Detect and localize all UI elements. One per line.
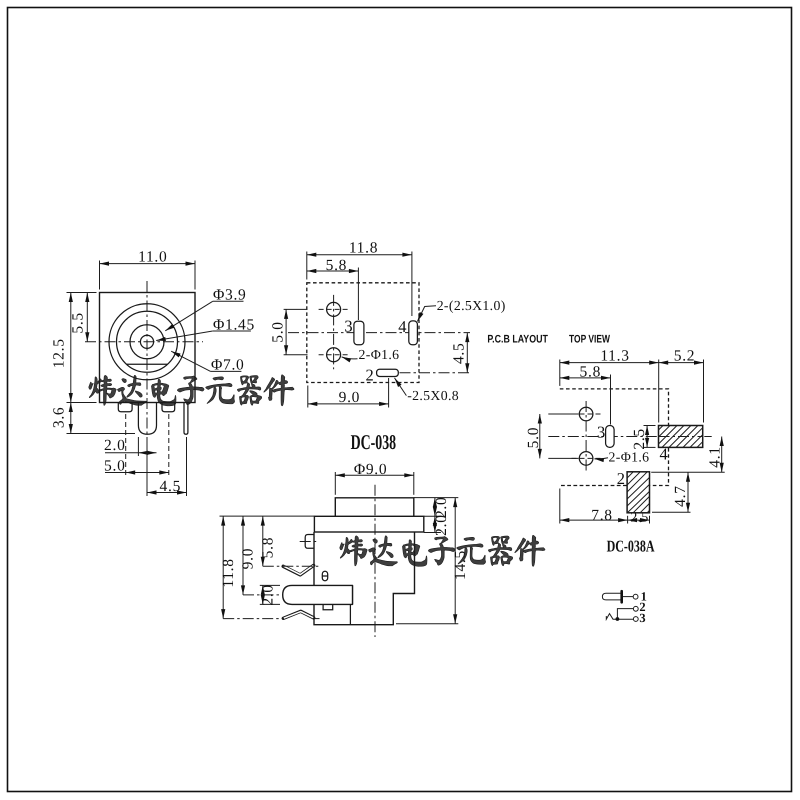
slot 2 xyxy=(377,369,399,376)
dim 5.0 left xyxy=(284,308,308,310)
hole 2 bottom xyxy=(579,452,593,466)
label dia 1.45 leader xyxy=(156,331,213,341)
dim 3.6 left xyxy=(67,433,136,435)
svg-text:Φ1.45: Φ1.45 xyxy=(213,316,255,333)
circle dia 7.0 xyxy=(117,311,178,372)
circle dia 3.9 xyxy=(130,325,164,359)
dim 9.0 left xyxy=(242,516,244,595)
dim 5.8 xyxy=(357,268,359,321)
label 2-dia1.6 leader xyxy=(594,458,608,459)
slot 4 xyxy=(409,321,418,345)
svg-text:11.8: 11.8 xyxy=(349,240,378,257)
svg-text:2.0: 2.0 xyxy=(104,437,125,454)
dim phi 9.0 top xyxy=(334,472,336,495)
svg-text:5.8: 5.8 xyxy=(580,363,601,380)
svg-text:4.1: 4.1 xyxy=(707,446,724,467)
svg-text:4: 4 xyxy=(659,445,667,464)
svg-text:Φ9.0: Φ9.0 xyxy=(354,461,388,478)
vertical centerline through holes xyxy=(333,295,335,369)
pad 2 hatched xyxy=(627,472,649,513)
hole 1 top xyxy=(579,407,593,421)
slot 3 xyxy=(354,321,364,345)
spring contact zigzag pin 3 xyxy=(606,614,633,620)
wire pin 1 xyxy=(623,596,633,598)
hole 2 crosshair xyxy=(572,457,602,459)
svg-text:11.0: 11.0 xyxy=(138,248,167,265)
dim 4.5 bottom xyxy=(146,437,148,496)
dim 4.7 right xyxy=(652,511,691,513)
slot 3 xyxy=(606,426,615,448)
top extension line left xyxy=(220,515,315,517)
flange rect xyxy=(314,516,423,532)
pcb outline dashed rect xyxy=(307,283,419,383)
chord line xyxy=(127,363,168,365)
dim 5.5 left xyxy=(84,292,97,294)
terminal circle 1 xyxy=(633,594,638,599)
dim 2.5 pad4 xyxy=(644,425,656,427)
svg-text:3: 3 xyxy=(344,316,352,335)
svg-text:2.5: 2.5 xyxy=(630,509,648,524)
dim 2.0 bottom xyxy=(137,437,139,456)
watermark text weida dianzi yuanqijian lower xyxy=(340,535,545,566)
horizontal centerline xyxy=(548,436,711,438)
dim 11.0 top xyxy=(99,261,101,290)
center pin side (rounded cap) xyxy=(283,585,353,604)
svg-text:4.5: 4.5 xyxy=(450,343,467,364)
lower spring contact pin xyxy=(283,611,313,618)
svg-text:P.C.B LAYOUT: P.C.B LAYOUT xyxy=(487,334,548,346)
svg-text:5.0: 5.0 xyxy=(104,457,125,474)
svg-text:11.8: 11.8 xyxy=(220,558,237,587)
vertical centerline xyxy=(146,281,148,468)
vertical centerline xyxy=(374,485,376,637)
svg-text:Φ3.9: Φ3.9 xyxy=(213,287,247,304)
dim 11.3 xyxy=(559,360,561,386)
svg-text:-2.5X0.8: -2.5X0.8 xyxy=(407,388,459,403)
hole 1 crosshair xyxy=(319,308,349,310)
svg-text:2: 2 xyxy=(617,469,625,488)
label dia 3.9 leader xyxy=(165,301,212,331)
svg-text:4.7: 4.7 xyxy=(672,485,689,506)
right extension from flange bottom xyxy=(424,532,441,534)
svg-text:5.0: 5.0 xyxy=(270,321,287,342)
dim 12.5 left xyxy=(67,292,97,294)
horizontal centerline xyxy=(85,341,203,343)
main body outline xyxy=(314,532,415,625)
svg-text:12.5: 12.5 xyxy=(50,338,67,368)
svg-text:DC-038A: DC-038A xyxy=(607,537,655,556)
right mount tab pin xyxy=(162,403,175,412)
dim 4.5 right xyxy=(466,333,468,373)
left protrusion lug xyxy=(305,535,314,549)
svg-text:2-(2.5X1.0): 2-(2.5X1.0) xyxy=(437,298,506,313)
barrel top rect xyxy=(335,498,414,517)
label 2-(2.5X1.0) leader xyxy=(417,306,436,322)
svg-text:DC-038: DC-038 xyxy=(351,430,397,454)
svg-text:11.3: 11.3 xyxy=(600,348,629,365)
dim 5.0 bottom xyxy=(125,414,127,476)
svg-text:7.8: 7.8 xyxy=(591,507,612,524)
inner vertical line below pin xyxy=(349,605,351,625)
svg-text:2-Φ1.6: 2-Φ1.6 xyxy=(359,347,400,362)
dim 5.8 left xyxy=(262,516,264,566)
svg-text:5.2: 5.2 xyxy=(674,348,695,365)
label 2.5X0.8 leader xyxy=(395,378,407,396)
svg-text:5.8: 5.8 xyxy=(260,537,277,558)
small slot inside body xyxy=(322,571,327,580)
center pin centerline xyxy=(243,594,281,596)
lower pin centerline xyxy=(223,618,283,620)
dim 2.5 pad2 bottom xyxy=(627,516,629,524)
outer barrel circle xyxy=(109,304,185,380)
wire pin 2 (L-shape) xyxy=(617,609,633,619)
pad 4 hatched xyxy=(659,426,703,448)
svg-text:Φ7.0: Φ7.0 xyxy=(211,357,245,374)
dim 2.0 barrel height xyxy=(434,498,436,517)
horizontal centerline through slots 3 and 4 xyxy=(288,332,470,334)
body inner line at pin end xyxy=(352,585,354,604)
centerline over pad 4 xyxy=(659,436,703,438)
dim 11.8 left xyxy=(222,516,224,619)
dim 7.8 bottom xyxy=(559,489,561,524)
dim 2.0 left pin xyxy=(260,584,280,586)
upper spring contact pin xyxy=(283,565,313,575)
left mount tab pin xyxy=(118,403,132,412)
terminal circle 2 xyxy=(633,606,638,611)
center pin barrel symbol xyxy=(602,593,622,600)
svg-text:2.5: 2.5 xyxy=(631,428,648,449)
label dia 7.0 leader xyxy=(171,351,210,371)
dim 5.2 xyxy=(703,360,705,423)
dim 11.8 xyxy=(306,252,308,280)
svg-text:2.0: 2.0 xyxy=(433,514,450,535)
hole 2 bottom xyxy=(327,348,341,362)
dim 14.5 right xyxy=(396,623,458,625)
svg-text:4.5: 4.5 xyxy=(160,478,181,495)
center pin circle dia 1.45 xyxy=(140,335,153,348)
svg-text:9.0: 9.0 xyxy=(339,389,360,406)
right thin pin xyxy=(184,403,188,435)
contact bar pin 1 xyxy=(620,591,623,602)
hole 2 crosshair xyxy=(319,354,349,356)
svg-text:5.8: 5.8 xyxy=(326,257,347,274)
svg-text:2: 2 xyxy=(365,365,373,384)
svg-text:3: 3 xyxy=(597,423,605,442)
watermark text weida dianzi yuanqijian upper xyxy=(89,375,294,406)
center pin (U-shape) xyxy=(138,403,156,435)
svg-text:9.0: 9.0 xyxy=(239,548,256,569)
svg-text:2-Φ1.6: 2-Φ1.6 xyxy=(609,450,650,465)
dim 4.1 right xyxy=(651,471,725,473)
junction dot xyxy=(616,617,620,621)
terminal circle 3 xyxy=(633,617,638,622)
svg-text:5.5: 5.5 xyxy=(69,312,86,333)
hole 1 top xyxy=(327,302,341,316)
dim 5.8 xyxy=(610,375,612,425)
pcb outline dashed rect xyxy=(560,389,669,486)
protrusion centerline xyxy=(300,541,319,543)
svg-text:2.0: 2.0 xyxy=(260,584,277,605)
vertical centerline through holes xyxy=(585,401,587,472)
svg-text:4: 4 xyxy=(398,317,406,336)
label 2-dia1.6 leader xyxy=(342,357,358,359)
dim 5.0 left xyxy=(548,413,578,415)
dim 9.0 bottom xyxy=(307,386,309,408)
svg-text:3.6: 3.6 xyxy=(50,407,67,428)
upper pin centerline xyxy=(263,565,319,567)
dim 2.0 flange height xyxy=(434,516,436,532)
right extension from barrel top xyxy=(414,497,459,499)
svg-text:TOP VIEW: TOP VIEW xyxy=(569,334,610,346)
svg-text:5.0: 5.0 xyxy=(525,427,542,448)
centerline through slot 2 xyxy=(400,372,471,374)
small tab below pin xyxy=(323,605,333,610)
svg-text:3: 3 xyxy=(639,611,645,625)
right extension from flange top xyxy=(424,515,441,517)
front view body square xyxy=(100,293,196,403)
hole 1 crosshair xyxy=(572,413,602,415)
